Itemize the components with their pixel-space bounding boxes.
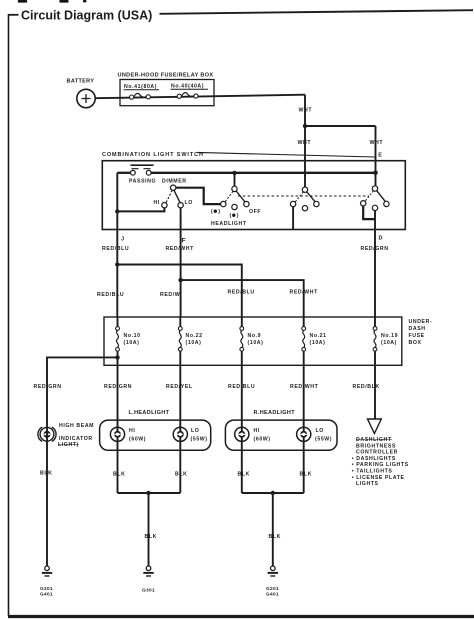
svg-text:E: E	[378, 153, 382, 159]
svg-text:G301: G301	[142, 588, 155, 594]
svg-text:UNDER-: UNDER-	[409, 319, 433, 325]
svg-text:• TAILLIGHTS: • TAILLIGHTS	[352, 469, 393, 475]
svg-text:G401: G401	[40, 591, 53, 597]
svg-text:RED/BLU: RED/BLU	[102, 246, 129, 252]
svg-text:RED/GRN: RED/GRN	[361, 246, 389, 252]
svg-text:No.19: No.19	[381, 333, 398, 339]
svg-text:J: J	[121, 237, 124, 243]
svg-text:BLK: BLK	[40, 471, 52, 477]
svg-text:LIGHTS: LIGHTS	[356, 481, 379, 487]
svg-text:No.10: No.10	[124, 333, 141, 339]
svg-text:RED/W: RED/W	[160, 292, 180, 298]
svg-text:(55W): (55W)	[315, 437, 332, 443]
svg-text:DASHLIGHT: DASHLIGHT	[356, 437, 392, 443]
svg-text:WHT: WHT	[299, 108, 313, 114]
svg-text:DIMMER: DIMMER	[162, 179, 187, 185]
svg-text:No.40(40A): No.40(40A)	[171, 84, 204, 90]
svg-text:(60W): (60W)	[129, 437, 146, 443]
svg-text:BLK: BLK	[300, 472, 312, 478]
svg-text:LIGHT): LIGHT)	[58, 442, 79, 448]
svg-text:(10A): (10A)	[310, 340, 326, 346]
svg-text:LO: LO	[185, 200, 193, 206]
svg-text:(10A): (10A)	[124, 340, 140, 346]
svg-text:RED/GRN: RED/GRN	[34, 384, 62, 390]
svg-text:HIGH BEAM: HIGH BEAM	[59, 423, 94, 429]
svg-text:OFF: OFF	[249, 209, 261, 215]
svg-text:RED/GRN: RED/GRN	[104, 384, 132, 390]
svg-text:COMBINATION LIGHT SWITCH: COMBINATION LIGHT SWITCH	[102, 152, 204, 158]
svg-text:BOX: BOX	[409, 340, 422, 346]
svg-text:BLK: BLK	[238, 472, 250, 478]
svg-text:F: F	[182, 238, 186, 245]
svg-text:DASH: DASH	[409, 326, 426, 332]
svg-text:D: D	[379, 236, 383, 242]
svg-text:BLK: BLK	[113, 472, 125, 478]
svg-text:CONTROLLER: CONTROLLER	[356, 450, 398, 456]
svg-text:RED/YEL: RED/YEL	[166, 384, 193, 390]
svg-text:HI: HI	[129, 428, 135, 434]
svg-text:G201: G201	[266, 586, 279, 592]
svg-text:R.HEADLIGHT: R.HEADLIGHT	[254, 410, 296, 416]
svg-text:(10A): (10A)	[248, 340, 264, 346]
svg-text:• PARKING LIGHTS: • PARKING LIGHTS	[352, 462, 409, 468]
svg-text:• DASHLIGHTS: • DASHLIGHTS	[352, 456, 396, 462]
svg-text:RED/WHT: RED/WHT	[166, 246, 195, 252]
svg-text:L.HEADLIGHT: L.HEADLIGHT	[129, 410, 170, 416]
svg-text:Circuit Diagram (USA): Circuit Diagram (USA)	[21, 9, 152, 23]
svg-text:G201: G201	[40, 586, 53, 592]
svg-text:): )	[218, 209, 220, 215]
svg-text:WHT: WHT	[298, 140, 312, 146]
svg-text:BRIGHTNESS: BRIGHTNESS	[356, 443, 396, 449]
svg-text:• LICENSE PLATE: • LICENSE PLATE	[352, 475, 405, 481]
svg-text:FUSE: FUSE	[409, 333, 425, 339]
svg-text:PASSING: PASSING	[129, 179, 156, 185]
svg-text:RED/BLK: RED/BLK	[353, 384, 380, 390]
svg-text:LO: LO	[316, 428, 324, 434]
svg-text:): )	[237, 213, 239, 219]
svg-text:BLK: BLK	[145, 534, 157, 540]
svg-text:RED/BLU: RED/BLU	[228, 290, 255, 296]
svg-text:No.9: No.9	[248, 333, 262, 339]
svg-text:No.21: No.21	[310, 333, 327, 339]
svg-text:RED/BLU: RED/BLU	[228, 384, 255, 390]
svg-text:(: (	[211, 209, 213, 215]
svg-text:(: (	[230, 213, 232, 219]
svg-text:RED/WHT: RED/WHT	[290, 384, 319, 390]
svg-text:(60W): (60W)	[254, 437, 271, 443]
svg-text:RED/WHT: RED/WHT	[290, 290, 319, 296]
svg-text:UNDER-HOOD FUSE/RELAY BOX: UNDER-HOOD FUSE/RELAY BOX	[118, 73, 214, 79]
svg-text:HI: HI	[154, 200, 160, 206]
svg-text:(10A): (10A)	[186, 340, 202, 346]
svg-text:No.22: No.22	[186, 333, 203, 339]
svg-text:No.41(80A): No.41(80A)	[124, 84, 157, 90]
svg-text:BLK: BLK	[175, 472, 187, 478]
svg-text:RED/BLU: RED/BLU	[97, 292, 124, 298]
svg-text:(55W): (55W)	[191, 437, 208, 443]
svg-text:BLK: BLK	[269, 534, 281, 540]
svg-text:WHT: WHT	[370, 140, 384, 146]
svg-text:HEADLIGHT: HEADLIGHT	[211, 221, 247, 227]
svg-text:G401: G401	[266, 591, 279, 597]
svg-text:(10A): (10A)	[381, 340, 397, 346]
svg-text:HI: HI	[254, 428, 260, 434]
svg-text:BATTERY: BATTERY	[67, 79, 95, 85]
svg-text:LO: LO	[191, 428, 199, 434]
